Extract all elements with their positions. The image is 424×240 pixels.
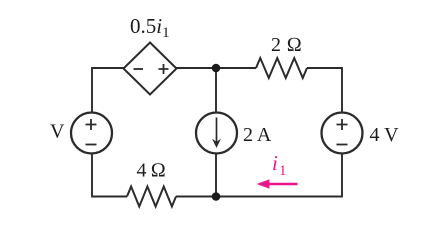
svg-text:Ω: Ω <box>287 34 302 56</box>
wire top-right (2ohm resistor to right corner) <box>307 67 342 69</box>
wire left vertical lower <box>91 153 93 197</box>
svg-text:4: 4 <box>137 160 147 182</box>
svg-text:i: i <box>272 151 278 175</box>
resistor 4 ohm <box>127 187 176 207</box>
wire top-middle (diamond to 2ohm resistor, through node) <box>177 67 257 69</box>
svg-text:V: V <box>50 121 65 143</box>
svg-text:0.5i1: 0.5i1 <box>130 14 170 41</box>
svg-text:1: 1 <box>279 163 287 179</box>
wire left vertical upper <box>91 67 93 113</box>
dependent source diamond 0.5i1 <box>124 43 177 95</box>
wire right vertical lower <box>341 153 343 197</box>
svg-text:4 V: 4 V <box>370 124 400 146</box>
wire bottom-right (4ohm resistor to right corner, through node) <box>176 196 342 198</box>
resistor 2 ohm <box>256 58 307 78</box>
wire middle vertical lower (current source to bottom node) <box>215 153 217 196</box>
wire bottom-left (corner to 4ohm resistor) <box>92 196 127 198</box>
wire right vertical upper <box>341 67 343 113</box>
voltage source V (left) <box>71 113 112 154</box>
svg-text:Ω: Ω <box>151 160 166 182</box>
voltage source 4V (right) <box>322 113 363 154</box>
wire middle vertical upper (node to current source) <box>215 68 217 113</box>
node junction bottom <box>212 192 221 201</box>
current source 2A (middle) <box>196 113 237 154</box>
svg-text:2 A: 2 A <box>243 124 272 146</box>
wire top-left horizontal (corner to diamond) <box>92 67 124 69</box>
node junction top <box>212 64 221 73</box>
svg-text:2: 2 <box>271 34 281 56</box>
current direction arrow i1 (pink) <box>257 179 298 188</box>
